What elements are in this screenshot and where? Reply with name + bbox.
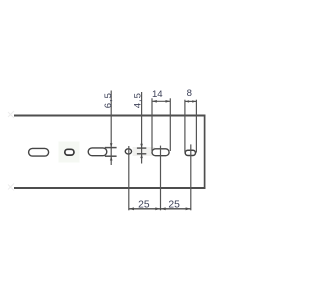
dimension 8 line — [185, 100, 197, 102]
dimension 25 middle left arrowhead — [155, 207, 160, 210]
dimension 14 left extension line — [151, 98, 153, 151]
dimension 4,5 bottom tick — [137, 153, 146, 155]
dimension 8 left extension line — [184, 100, 186, 153]
slot A (large obround hole) — [29, 148, 49, 156]
dimension 25 middle right arrowhead — [161, 207, 166, 210]
dimension 6,5 bottom tick — [105, 155, 117, 157]
dimension 4,5 vertical leader line — [141, 92, 143, 164]
faint break smudge at left end of top rail line — [8, 111, 14, 118]
svg-text:14: 14 — [152, 89, 163, 100]
dimension 4,5 top tick — [137, 147, 146, 149]
rail top edge line — [14, 115, 205, 117]
dimension 6,5 upper arrowhead — [110, 143, 113, 147]
dimension 6,5 vertical leader line — [110, 91, 112, 166]
dimension 14 right extension line — [169, 98, 171, 151]
slot E (large obround hole, 14 wide) — [152, 149, 169, 156]
dimension 25 left arrowhead — [129, 207, 134, 210]
slot C (large obround hole) — [88, 148, 107, 156]
dimension 6,5 top tick — [105, 147, 117, 149]
hole B (small obround hole) — [65, 149, 74, 155]
dimension 8 right arrowhead — [192, 100, 196, 102]
centerline through slot E down to 25-dimension — [160, 146, 162, 211]
rail bottom edge line — [14, 187, 205, 189]
dimension 14 line — [152, 100, 170, 102]
centerline through hole F down to 25-dimension — [190, 144, 192, 210]
svg-text:8: 8 — [187, 88, 192, 99]
centerline through hole D down to 25-dimension — [128, 146, 130, 210]
svg-text:4,5: 4,5 — [133, 92, 144, 108]
faint highlight tint between holes D and E — [133, 147, 156, 156]
dimension 8 right extension line — [195, 100, 197, 153]
dimension 4,5 upper arrowhead — [140, 144, 143, 148]
dimension 25 right arrowhead — [186, 207, 191, 210]
hole F (small obround hole, 8 wide) — [185, 150, 195, 155]
dimension 4,5 lower arrowhead — [140, 154, 143, 158]
faint highlight tint around hole B — [59, 142, 80, 163]
dimension 14 right arrowhead — [166, 100, 171, 103]
dimension 14 left arrowhead — [152, 100, 157, 103]
rail right end edge — [204, 115, 206, 189]
dimension 8 left arrowhead — [185, 100, 189, 102]
hole D (small round hole, 4.5 dia) — [125, 149, 131, 154]
svg-text:6,5: 6,5 — [103, 92, 114, 108]
dimension 6,5 lower arrowhead — [110, 156, 113, 160]
dimension 25+25 line — [129, 208, 191, 210]
svg-text:25: 25 — [168, 199, 180, 210]
svg-text:25: 25 — [138, 199, 150, 210]
faint break smudge at left end of bottom rail line — [8, 184, 14, 191]
